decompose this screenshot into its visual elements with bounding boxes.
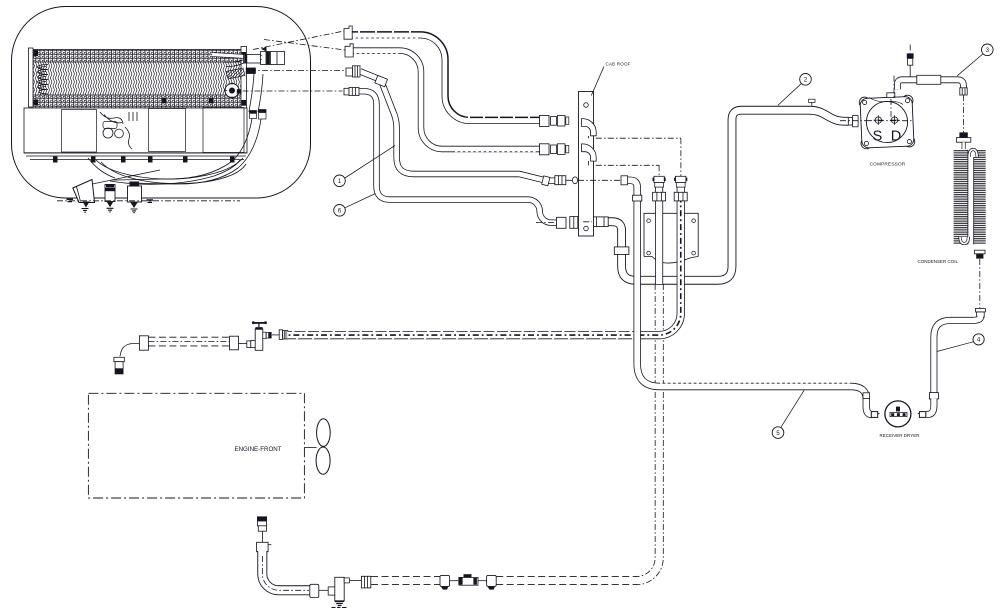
svg-text:3: 3 <box>986 47 990 54</box>
svg-text:6: 6 <box>338 208 342 215</box>
svg-text:RECEIVER DRYER: RECEIVER DRYER <box>880 433 921 438</box>
svg-text:4: 4 <box>977 337 981 344</box>
svg-text:ENGINE-FRONT: ENGINE-FRONT <box>234 446 281 453</box>
svg-text:COMPRESSOR: COMPRESSOR <box>870 161 906 166</box>
svg-text:5: 5 <box>776 430 780 437</box>
svg-text:2: 2 <box>804 77 808 84</box>
svg-text:1: 1 <box>338 178 342 185</box>
svg-text:CONDENSER COIL: CONDENSER COIL <box>918 259 959 264</box>
svg-text:S: S <box>873 129 883 145</box>
svg-text:CAB ROOF: CAB ROOF <box>606 62 631 67</box>
svg-text:D: D <box>891 129 901 145</box>
